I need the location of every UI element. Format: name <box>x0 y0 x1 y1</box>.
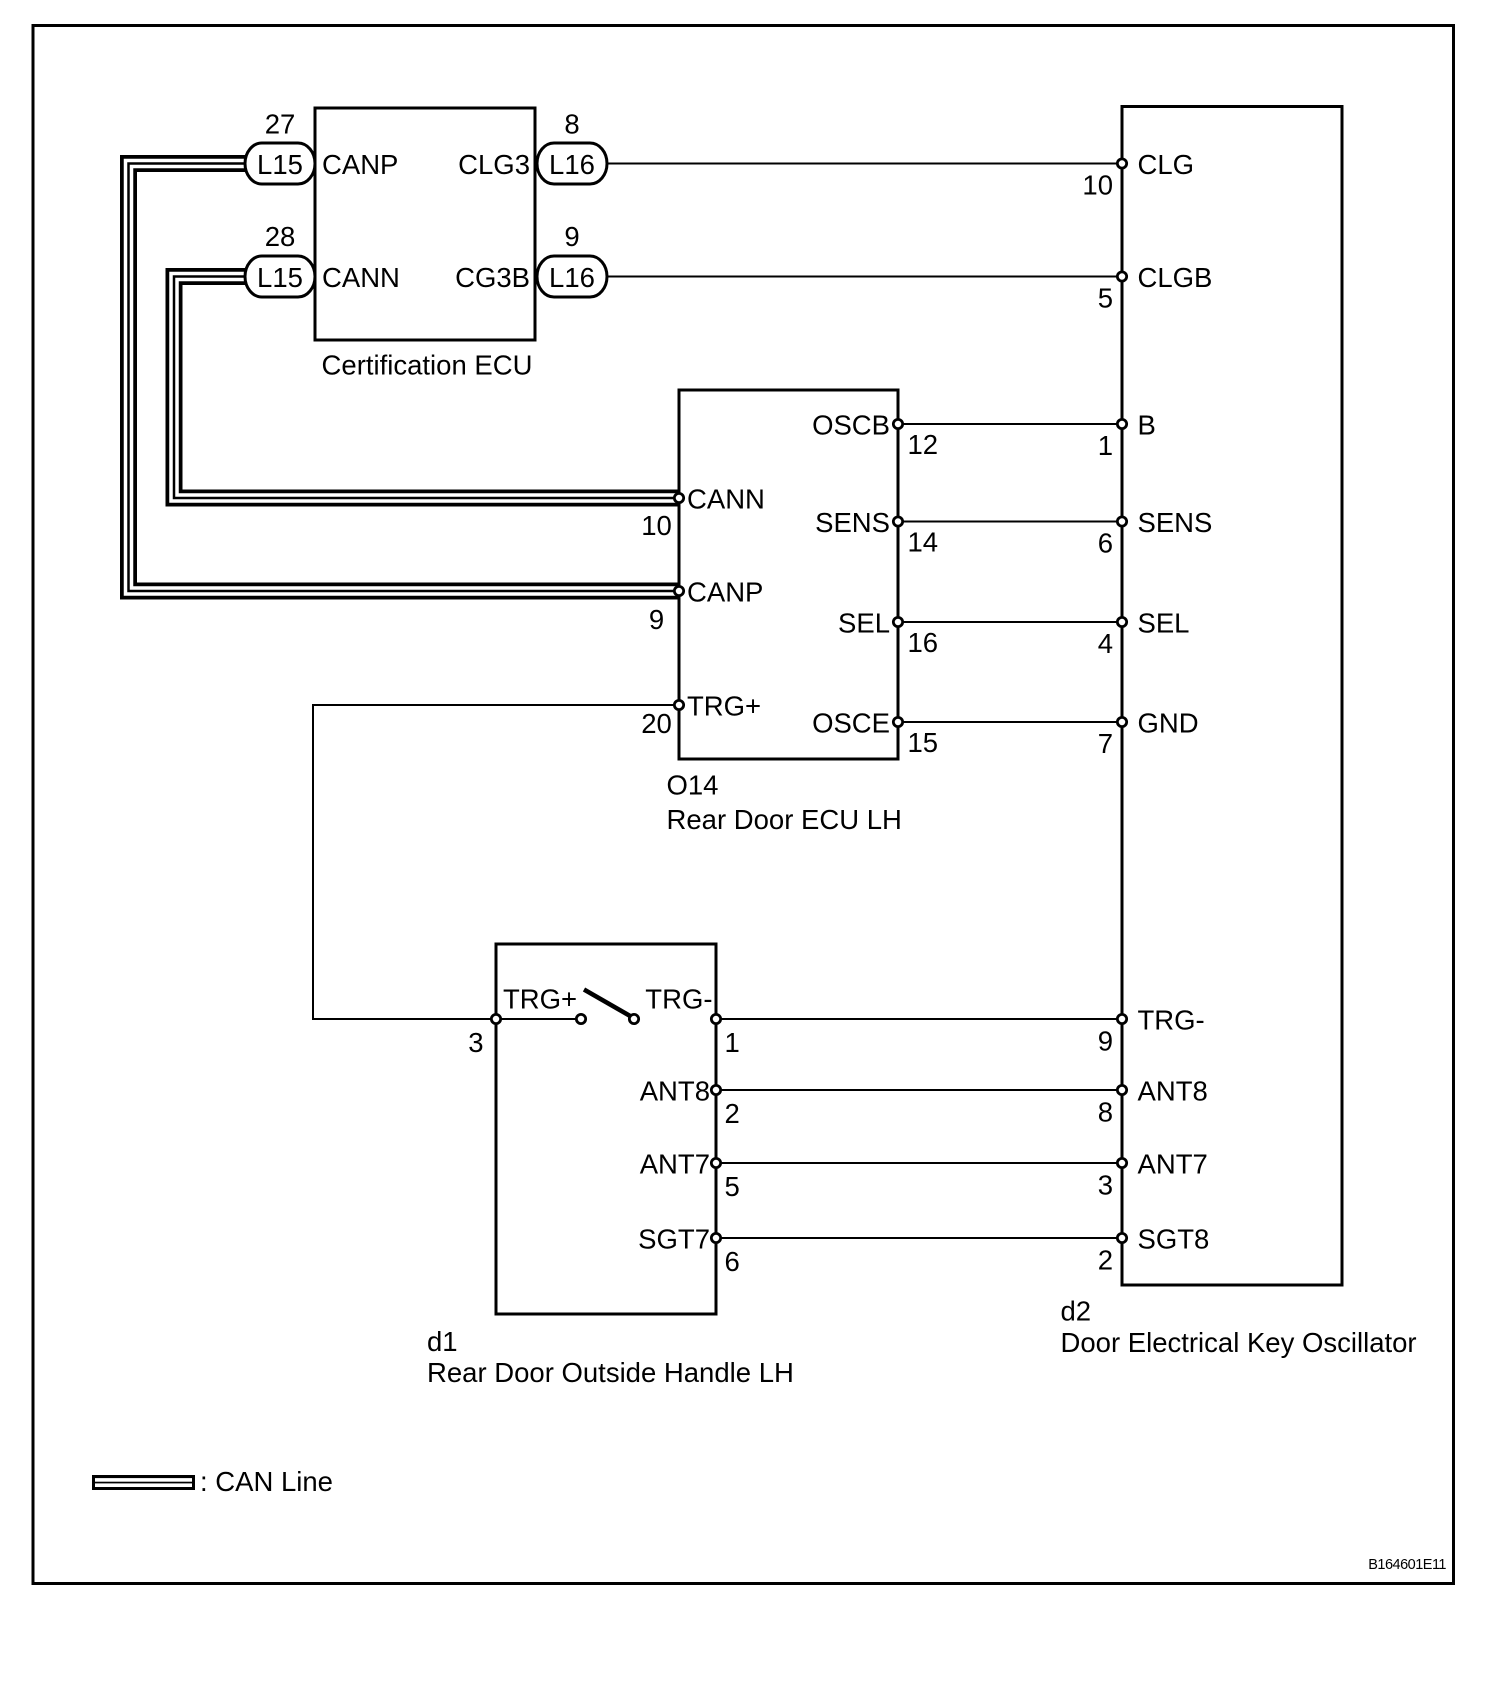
pin circle ANT8 handle <box>711 1085 720 1094</box>
pin ANT7 (5) of handle <box>640 1149 740 1203</box>
wire ANT8 pin2 to ANT8 pin8 <box>716 1089 1122 1091</box>
wire handle pin3 to switch <box>496 1018 581 1020</box>
svg-text:SGT8: SGT8 <box>1138 1224 1210 1255</box>
pin circle CANP O14 <box>674 586 683 595</box>
wire switch to handle pin1 <box>634 1018 716 1020</box>
svg-text:9: 9 <box>1098 1026 1113 1057</box>
pin CLG (10) of d2 <box>1082 149 1194 201</box>
Certification ECU box <box>315 108 535 381</box>
pin SGT7 (6) of handle <box>638 1224 740 1278</box>
svg-text:2: 2 <box>1098 1245 1113 1276</box>
legend CAN line symbol <box>92 1466 333 1497</box>
svg-text:8: 8 <box>1098 1097 1113 1128</box>
svg-text:1: 1 <box>1098 430 1113 461</box>
Rear Door ECU LH box O14 <box>667 390 902 835</box>
pin circle TRG+ O14 <box>674 700 683 709</box>
wire CG3B L16 to CLGB pin5 <box>607 276 1122 278</box>
svg-text:CANN: CANN <box>322 262 400 293</box>
svg-text:L16: L16 <box>549 262 595 293</box>
pin SGT8 (2) of d2 <box>1098 1224 1210 1276</box>
svg-text:5: 5 <box>1098 283 1113 314</box>
pin circle SENS O14 <box>893 517 902 526</box>
wire TRG+ pin20 to handle pin3 <box>313 705 679 1019</box>
pin circle GND d2 <box>1117 717 1126 726</box>
pin ANT8 (8) of d2 <box>1098 1076 1208 1128</box>
svg-text:Rear Door Outside Handle LH: Rear Door Outside Handle LH <box>427 1357 794 1388</box>
pin circle SENS d2 <box>1117 517 1126 526</box>
svg-text:14: 14 <box>908 527 939 558</box>
svg-text:3: 3 <box>1098 1170 1113 1201</box>
svg-text:SENS: SENS <box>815 507 890 538</box>
pin OSCE (15) of O14 <box>812 708 938 759</box>
pin circle B d2 <box>1117 419 1126 428</box>
svg-text:TRG-: TRG- <box>1138 1005 1205 1036</box>
pin CANN (10) of O14 <box>641 484 765 542</box>
svg-text:27: 27 <box>265 109 296 140</box>
pin circle TRG- d2 <box>1117 1014 1126 1023</box>
svg-text:15: 15 <box>908 727 939 758</box>
svg-text:L15: L15 <box>257 262 303 293</box>
pin circle ANT8 d2 <box>1117 1085 1126 1094</box>
svg-text:L15: L15 <box>257 149 303 180</box>
svg-text:ANT8: ANT8 <box>640 1076 710 1107</box>
pin circle SGT8 d2 <box>1117 1233 1126 1242</box>
pin circle ANT7 d2 <box>1117 1158 1126 1167</box>
svg-text:L16: L16 <box>549 149 595 180</box>
svg-text:CLG: CLG <box>1138 149 1195 180</box>
svg-text:Door Electrical Key Oscillator: Door Electrical Key Oscillator <box>1061 1327 1417 1358</box>
svg-text:TRG-: TRG- <box>645 984 712 1015</box>
svg-text:CANP: CANP <box>687 577 763 608</box>
pin SENS (6) of d2 <box>1098 507 1213 559</box>
connector L15 pin 28 <box>245 221 315 297</box>
connector L16 pin 9 <box>537 221 607 297</box>
svg-text:5: 5 <box>725 1171 740 1202</box>
svg-text:SEL: SEL <box>838 608 890 639</box>
pin circle pin3 handle <box>491 1014 500 1023</box>
wire CAN bus CANP: L15 pin27 to Rear Door ECU CANP pin 9 <box>129 164 680 592</box>
svg-text:ANT7: ANT7 <box>640 1149 710 1180</box>
svg-text:d1: d1 <box>427 1326 458 1357</box>
svg-text:12: 12 <box>908 429 939 460</box>
svg-text:d2: d2 <box>1061 1296 1092 1327</box>
svg-text:1: 1 <box>725 1027 740 1058</box>
pin SEL (4) of d2 <box>1098 608 1190 660</box>
pin SENS (14) of O14 <box>815 507 938 558</box>
Rear Door Outside Handle LH box d1 <box>427 944 794 1388</box>
svg-text:Certification ECU: Certification ECU <box>322 350 533 381</box>
pin circle SEL O14 <box>893 617 902 626</box>
svg-text:B: B <box>1138 410 1156 441</box>
drawing number B164601E11 <box>1368 1557 1446 1573</box>
svg-text:CLGB: CLGB <box>1138 262 1213 293</box>
pin circle CANN O14 <box>674 493 683 502</box>
pin TRG- (9) of d2 <box>1098 1005 1205 1057</box>
svg-text:: CAN Line: : CAN Line <box>200 1466 333 1497</box>
svg-text:ANT7: ANT7 <box>1138 1149 1208 1180</box>
wire ANT7 pin5 to ANT7 pin3 <box>716 1162 1122 1164</box>
pin SEL (16) of O14 <box>838 608 938 659</box>
pin TRG+ (20) of O14 <box>641 691 761 740</box>
svg-text:Rear Door ECU LH: Rear Door ECU LH <box>667 804 902 835</box>
pin circle SEL d2 <box>1117 617 1126 626</box>
svg-text:TRG+: TRG+ <box>503 984 577 1015</box>
pin CG3B label <box>455 262 530 293</box>
svg-text:4: 4 <box>1098 628 1113 659</box>
connector L15 pin 27 <box>245 109 315 185</box>
wire SENS pin14 to SENS pin6 <box>898 521 1122 523</box>
svg-text:10: 10 <box>1082 170 1113 201</box>
pin circle CLG d2 <box>1117 159 1126 168</box>
wire CAN bus CANN: L15 pin28 to Rear Door ECU CANN pin 10 <box>174 277 679 499</box>
switch TRG+/TRG- inside handle <box>496 990 639 1024</box>
pin GND (7) of d2 <box>1098 708 1199 760</box>
connector L16 pin 8 <box>537 109 607 185</box>
svg-text:OSCB: OSCB <box>812 410 890 441</box>
svg-text:GND: GND <box>1138 708 1199 739</box>
svg-text:CLG3: CLG3 <box>458 149 530 180</box>
svg-text:8: 8 <box>564 109 579 140</box>
svg-text:7: 7 <box>1098 728 1113 759</box>
svg-text:9: 9 <box>564 221 579 252</box>
svg-text:O14: O14 <box>667 770 719 801</box>
wire CLG3 L16 to CLG pin10 <box>607 163 1122 165</box>
svg-text:10: 10 <box>641 510 672 541</box>
svg-text:3: 3 <box>468 1027 483 1058</box>
pin ANT8 (2) of handle <box>640 1076 740 1130</box>
svg-text:SENS: SENS <box>1138 507 1213 538</box>
pin CLG3 label <box>458 149 530 180</box>
wire SEL pin16 to SEL pin4 <box>898 621 1122 623</box>
pin B (1) of d2 <box>1098 410 1156 462</box>
svg-text:B164601E11: B164601E11 <box>1368 1557 1446 1573</box>
svg-text:CANN: CANN <box>687 484 765 515</box>
svg-text:20: 20 <box>641 708 672 739</box>
pin circle pin1 handle <box>711 1014 720 1023</box>
svg-text:TRG+: TRG+ <box>687 691 761 722</box>
wire SGT7 pin6 to SGT8 pin2 <box>716 1237 1122 1239</box>
svg-text:CG3B: CG3B <box>455 262 530 293</box>
wire TRG- pin1 to TRG- pin9 <box>716 1018 1122 1020</box>
pin TRG- (1) of handle <box>645 984 740 1059</box>
wire OSCE pin15 to GND pin7 <box>898 721 1122 723</box>
Door Electrical Key Oscillator box d2 <box>1061 107 1417 1359</box>
pin CANP label <box>322 149 398 180</box>
svg-text:16: 16 <box>908 627 939 658</box>
pin circle SGT7 handle <box>711 1233 720 1242</box>
pin CANN label <box>322 262 400 293</box>
svg-text:SGT7: SGT7 <box>638 1224 710 1255</box>
pin CANP (9) of O14 <box>649 577 764 636</box>
pin TRG+ (3) of handle <box>468 984 577 1059</box>
svg-text:OSCE: OSCE <box>812 708 890 739</box>
pin circle OSCB O14 <box>893 419 902 428</box>
svg-text:SEL: SEL <box>1138 608 1190 639</box>
svg-text:6: 6 <box>1098 528 1113 559</box>
svg-text:ANT8: ANT8 <box>1138 1076 1208 1107</box>
svg-text:28: 28 <box>265 221 296 252</box>
pin OSCB (12) of O14 <box>812 410 938 461</box>
svg-text:2: 2 <box>725 1098 740 1129</box>
pin circle CLGB d2 <box>1117 272 1126 281</box>
pin circle OSCE O14 <box>893 717 902 726</box>
svg-text:9: 9 <box>649 604 664 635</box>
pin CLGB (5) of d2 <box>1098 262 1213 314</box>
pin ANT7 (3) of d2 <box>1098 1149 1208 1201</box>
pin circle ANT7 handle <box>711 1158 720 1167</box>
svg-text:6: 6 <box>725 1246 740 1277</box>
wire OSCB pin12 to B pin1 <box>898 423 1122 425</box>
svg-text:CANP: CANP <box>322 149 398 180</box>
